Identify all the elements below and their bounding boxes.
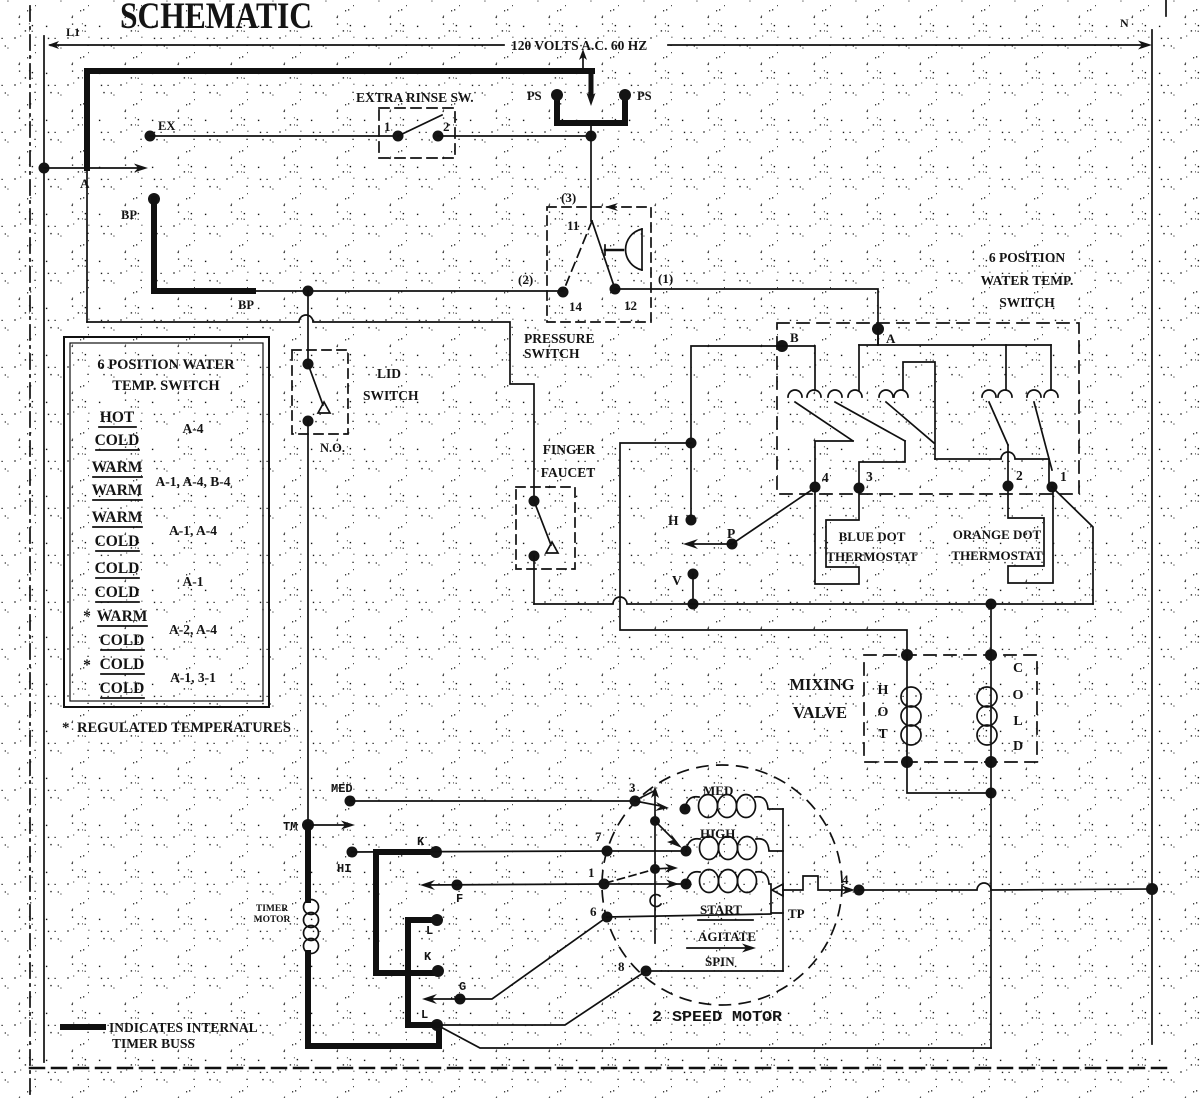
motor dashed circle	[602, 765, 842, 1005]
svg-text:A-2, A-4: A-2, A-4	[169, 622, 217, 637]
timer bus bottom run	[308, 953, 439, 1046]
actuator node b	[650, 864, 660, 874]
node terminal 3	[854, 483, 865, 494]
finger faucet box	[516, 487, 575, 569]
svg-text:D: D	[1013, 739, 1023, 754]
svg-text:PS: PS	[527, 89, 542, 103]
START underline	[698, 919, 753, 921]
temp table row WARM/COLD	[92, 509, 218, 550]
wire 1 to START winding with arrow	[604, 880, 686, 889]
wire 7 to HIGH winding	[607, 850, 686, 852]
water temp B feed	[782, 346, 815, 390]
svg-text:FINGER: FINGER	[543, 442, 596, 457]
temp table title	[97, 357, 235, 394]
svg-text:6 POSITION WATER: 6 POSITION WATER	[97, 357, 235, 373]
svg-text:WARM: WARM	[92, 509, 143, 526]
label LID SWITCH	[363, 366, 419, 403]
COLD solenoid coil	[977, 655, 997, 762]
water temp bar to 1 with hump	[935, 452, 1049, 487]
svg-text:BP: BP	[121, 208, 137, 222]
node V junction	[688, 599, 699, 610]
timer bus thick left vertical	[84, 71, 90, 168]
svg-text:1: 1	[588, 865, 595, 880]
node TP-4	[854, 885, 865, 896]
wire lid switch drop	[307, 291, 309, 364]
wire TP with staple	[783, 876, 850, 890]
svg-text:B: B	[790, 330, 799, 345]
svg-text:THERMOSTAT: THERMOSTAT	[951, 548, 1043, 563]
pressure switch diaphragm horn	[605, 229, 642, 270]
node terminal 4	[810, 482, 821, 493]
wire lid switch to TM	[307, 421, 309, 825]
water temp blade e	[1034, 402, 1052, 470]
node A junction on L1	[39, 163, 50, 174]
svg-text:120 VOLTS A.C. 60 HZ: 120 VOLTS A.C. 60 HZ	[511, 38, 647, 53]
wire terminal 1 to main	[1052, 487, 1093, 604]
svg-text:COLD: COLD	[95, 432, 140, 449]
temp table row HOT/COLD A-4	[95, 409, 204, 449]
node HI terminal	[347, 847, 358, 858]
label COLD vertical	[1013, 661, 1024, 754]
actuator arrow b	[655, 864, 678, 873]
pressure switch blade to 12	[592, 221, 615, 289]
timer motor coil	[304, 900, 319, 954]
temp table row COLD/COLD	[95, 560, 204, 601]
svg-text:P: P	[727, 526, 735, 541]
pressure switch open blade to 14	[563, 221, 592, 292]
water temp bus drops	[859, 345, 1051, 390]
wire bottom return to L	[437, 1025, 991, 1048]
wire 8 to bus (SPIN lead)	[646, 970, 783, 972]
svg-text:3: 3	[629, 780, 636, 795]
label MIXING VALVE	[789, 675, 854, 722]
node EX terminal	[145, 131, 156, 142]
node BP top	[148, 193, 160, 205]
svg-text:C: C	[1013, 661, 1023, 676]
svg-text:*: *	[83, 608, 91, 625]
svg-text:MED: MED	[703, 783, 733, 798]
svg-text:A: A	[80, 176, 90, 191]
lid switch bottom contact	[303, 416, 314, 427]
label FINGER FAUCET	[541, 442, 596, 480]
node terminal 2	[1003, 481, 1014, 492]
svg-text:SCHEMATIC: SCHEMATIC	[120, 0, 312, 37]
svg-text:TEMP. SWITCH: TEMP. SWITCH	[112, 378, 220, 394]
svg-text:2 SPEED MOTOR: 2 SPEED MOTOR	[652, 1010, 782, 1026]
svg-text:EX: EX	[158, 119, 175, 133]
label BLUE DOT THERMOSTAT	[826, 529, 918, 564]
svg-text:8: 8	[618, 959, 625, 974]
svg-text:START: START	[700, 902, 742, 917]
water temp switch box	[777, 323, 1079, 494]
node HOT top	[901, 649, 913, 661]
node A	[872, 323, 884, 335]
node motor 7	[602, 846, 613, 857]
wire P arrow	[683, 539, 732, 549]
label START	[700, 902, 742, 917]
svg-text:O: O	[1013, 688, 1024, 703]
wire A vertical down	[86, 168, 88, 322]
svg-text:A-1, A-4, B-4: A-1, A-4, B-4	[156, 474, 231, 489]
svg-text:AGITATE: AGITATE	[698, 929, 756, 944]
svg-text:(2): (2)	[518, 272, 533, 287]
wire 3 to actuator	[636, 791, 654, 800]
svg-text:TIMER BUSS: TIMER BUSS	[112, 1036, 195, 1051]
page border bottom (dashed)	[30, 1067, 1170, 1070]
svg-text:7: 7	[595, 829, 602, 844]
water temp notch feed	[903, 362, 935, 459]
HOT solenoid coil	[901, 655, 921, 762]
node B	[776, 340, 788, 352]
wire A to finger faucet horizontal with hop	[87, 315, 534, 501]
svg-text:TP: TP	[788, 906, 805, 921]
svg-text:COLD: COLD	[95, 560, 140, 577]
extra rinse blade	[398, 115, 442, 136]
svg-text:THERMOSTAT: THERMOSTAT	[826, 549, 918, 564]
svg-text:HOT: HOT	[100, 409, 135, 426]
wire junction to HOT solenoid	[620, 443, 907, 655]
svg-text:PS: PS	[637, 89, 652, 103]
svg-text:(3): (3)	[561, 190, 576, 205]
blue dot thermostat loop	[815, 492, 859, 584]
node TM	[302, 819, 314, 831]
svg-text:A-4: A-4	[183, 421, 204, 436]
wire main horizontal with hop at 620	[534, 597, 1093, 604]
water temp stationary cups	[788, 390, 1058, 397]
svg-text:*: *	[83, 657, 91, 674]
wire L to 8	[437, 971, 646, 1025]
motor internal bus	[782, 809, 784, 971]
svg-text:COLD: COLD	[100, 656, 145, 673]
node junction H riser	[686, 438, 697, 449]
svg-text:WATER TEMP.: WATER TEMP.	[981, 273, 1074, 288]
node terminal K lower	[432, 965, 444, 977]
svg-text:HIGH: HIGH	[700, 826, 735, 841]
wire BP to pressure switch contact 14	[253, 290, 563, 292]
svg-text:12: 12	[624, 298, 637, 313]
pressure switch contact 14	[558, 287, 569, 298]
wire EX to extra rinse switch	[150, 135, 398, 137]
svg-text:ORANGE DOT: ORANGE DOT	[953, 527, 1042, 542]
svg-text:*: *	[62, 720, 70, 736]
wire P to terminal 4	[732, 489, 813, 544]
pressure switch box top arrow	[605, 203, 618, 211]
legend thick sample	[63, 1024, 103, 1030]
svg-text:(1): (1)	[658, 271, 673, 286]
node COLD top	[985, 649, 997, 661]
label TIMER MOTOR	[254, 904, 291, 925]
svg-text:11: 11	[567, 218, 579, 233]
lid switch box	[292, 350, 348, 434]
label REGULATED TEMPERATURES	[62, 720, 291, 736]
temp table row WARM/WARM	[92, 459, 231, 499]
svg-text:WARM: WARM	[92, 482, 143, 499]
dashed link 1 to actuator	[606, 870, 652, 883]
svg-text:SWITCH: SWITCH	[363, 388, 419, 403]
svg-text:K: K	[417, 835, 425, 849]
svg-text:4: 4	[822, 470, 829, 485]
label HOT vertical	[878, 683, 889, 742]
node motor 8	[641, 966, 652, 977]
orange dot thermostat loop	[1008, 491, 1053, 583]
node PS right	[619, 89, 631, 101]
svg-text:L: L	[426, 924, 433, 938]
node N junction	[1146, 883, 1158, 895]
wire TP to N with hop	[859, 883, 1152, 890]
wire N vertical bus	[1151, 30, 1153, 1044]
svg-text:2: 2	[1016, 468, 1023, 483]
label PRESSURE SWITCH	[524, 331, 595, 361]
node junction lid switch tee	[303, 286, 314, 297]
lid switch blade	[308, 364, 323, 405]
svg-text:COLD: COLD	[100, 632, 145, 649]
svg-text:TM: TM	[283, 820, 297, 834]
svg-text:14: 14	[569, 299, 583, 314]
svg-text:SWITCH: SWITCH	[999, 295, 1055, 310]
PS thick U link	[557, 95, 625, 123]
svg-text:WARM: WARM	[92, 459, 143, 476]
node HOT bottom	[901, 756, 913, 768]
wire pressure switch 12 to water temp A	[615, 289, 878, 345]
node terminal 1	[1047, 482, 1058, 493]
water temp bar to 4	[815, 441, 853, 487]
svg-text:MOTOR: MOTOR	[254, 915, 291, 925]
lid switch top contact	[303, 359, 314, 370]
extra rinse contact 1	[393, 131, 404, 142]
TP arrowhead	[842, 886, 855, 895]
svg-text:A-1, 3-1: A-1, 3-1	[170, 670, 216, 685]
svg-text:EXTRA RINSE SW.: EXTRA RINSE SW.	[356, 90, 474, 105]
label INDICATES INTERNAL TIMER BUSS	[109, 1020, 258, 1051]
node G terminal	[455, 994, 466, 1005]
wire MED to motor 3	[350, 800, 635, 802]
svg-text:3: 3	[866, 469, 873, 484]
finger faucet blade	[534, 501, 551, 545]
arrow up from thick bus to 120V line	[579, 49, 587, 69]
extra rinse switch box	[379, 108, 455, 158]
finger faucet top contact	[529, 496, 540, 507]
node COLD feed junction	[986, 599, 997, 610]
timer bus TM drop	[305, 825, 311, 900]
svg-text:VALVE: VALVE	[793, 703, 847, 722]
svg-text:G: G	[459, 980, 466, 994]
svg-text:PRESSURE: PRESSURE	[524, 331, 595, 346]
timer bus K link	[376, 852, 438, 973]
svg-text:H: H	[668, 513, 679, 528]
water temp blade c	[886, 402, 934, 443]
page border right stub	[1165, 0, 1167, 16]
wire PS junction drop to pressure switch	[590, 126, 592, 221]
svg-text:A-1, A-4: A-1, A-4	[169, 523, 217, 538]
svg-text:A: A	[886, 331, 896, 346]
node motor 6	[602, 912, 613, 923]
wire 6 stub	[607, 914, 771, 917]
water temp bar to 3	[859, 441, 905, 488]
svg-text:MIXING: MIXING	[789, 675, 854, 694]
label 6 POSITION WATER TEMP. SWITCH (right)	[981, 250, 1074, 310]
wire HI to motor 7	[352, 851, 607, 852]
svg-text:FAUCET: FAUCET	[541, 465, 596, 480]
timer bus BP thick L	[154, 199, 253, 291]
svg-text:BLUE DOT: BLUE DOT	[839, 529, 906, 544]
svg-text:1: 1	[384, 119, 391, 134]
svg-text:BP: BP	[238, 298, 254, 312]
water temp A bus	[859, 329, 1051, 345]
timer bus thick top horizontal	[87, 68, 592, 74]
wire 120V line right segment with right arrowhead	[668, 41, 1152, 50]
temp table row *WARM/COLD	[83, 608, 217, 649]
HIGH winding	[681, 837, 784, 860]
water temp drop to 2	[1007, 445, 1009, 486]
water temp blade a	[795, 402, 853, 441]
svg-text:SPIN: SPIN	[705, 954, 735, 969]
page border left (dash-dot)	[29, 6, 31, 1098]
wire B to H	[691, 346, 782, 520]
svg-text:L1: L1	[66, 25, 80, 39]
node F terminal	[452, 880, 463, 891]
lid switch triangle contact	[318, 402, 330, 413]
node motor 1	[599, 879, 610, 890]
svg-text:REGULATED TEMPERATURES: REGULATED TEMPERATURES	[77, 720, 291, 736]
actuator node a	[650, 816, 660, 826]
svg-text:2: 2	[443, 119, 450, 134]
water temp blade d	[989, 402, 1008, 445]
svg-text:SWITCH: SWITCH	[524, 346, 580, 361]
temp table outer box	[64, 337, 269, 707]
svg-text:TIMER: TIMER	[256, 904, 288, 914]
wire A arrow horizontal	[44, 164, 148, 173]
node motor 3	[630, 796, 641, 807]
wire V drop	[692, 574, 694, 604]
node terminal L upper	[431, 914, 443, 926]
svg-text:1: 1	[1060, 469, 1067, 484]
centrifugal actuator line	[650, 786, 661, 943]
TP takeoff triangle	[772, 884, 783, 896]
svg-text:4: 4	[842, 872, 849, 887]
temp table inner box	[70, 343, 263, 701]
AGITATE arrow	[687, 944, 756, 953]
START winding	[681, 870, 784, 914]
svg-text:F: F	[456, 892, 463, 906]
node terminal L lower	[431, 1019, 443, 1031]
wire F to motor 1	[424, 884, 604, 885]
svg-text:6: 6	[590, 904, 597, 919]
node COLD bottom	[985, 756, 997, 768]
svg-text:MED: MED	[331, 782, 353, 796]
wire extra rinse to PS junction	[438, 135, 591, 137]
node terminal K upper	[430, 846, 442, 858]
wire finger faucet to main	[533, 556, 535, 604]
node PS left	[551, 89, 563, 101]
svg-text:A-1: A-1	[183, 574, 204, 589]
wire F arrow	[420, 880, 435, 890]
svg-text:6 POSITION: 6 POSITION	[989, 250, 1065, 265]
pressure switch contact 12	[610, 284, 621, 295]
svg-text:K: K	[424, 950, 432, 964]
wire COLD return down	[990, 762, 992, 1048]
node mixing valve bottom junction	[986, 788, 997, 799]
finger faucet triangle contact	[546, 542, 558, 553]
svg-text:COLD: COLD	[95, 584, 140, 601]
finger faucet bottom contact	[529, 551, 540, 562]
wire L1 vertical bus	[43, 36, 45, 1062]
svg-text:N.O.: N.O.	[320, 441, 345, 455]
temp table row *COLD/COLD	[83, 656, 216, 697]
extra rinse contact 2	[433, 131, 444, 142]
svg-text:WARM: WARM	[97, 608, 148, 625]
wire TM arrow	[308, 821, 355, 830]
wire 3 to MED arrow	[635, 801, 669, 811]
node terminal P	[727, 539, 738, 550]
svg-text:COLD: COLD	[100, 680, 145, 697]
wire HOT bottom link	[907, 762, 991, 793]
svg-text:HI: HI	[337, 862, 351, 876]
svg-text:O: O	[878, 705, 889, 720]
wire 120V line left segment with left arrowhead	[48, 41, 504, 49]
timer bus L upper link	[408, 920, 437, 1025]
svg-text:INDICATES INTERNAL: INDICATES INTERNAL	[109, 1020, 258, 1035]
arrow down from thick bus	[587, 74, 596, 106]
mixing valve box	[864, 655, 1037, 762]
node terminal H	[686, 515, 697, 526]
node MED terminal	[345, 796, 356, 807]
wire COLD feed	[990, 604, 992, 655]
svg-text:V: V	[672, 573, 682, 588]
svg-text:COLD: COLD	[95, 533, 140, 550]
label ORANGE DOT THERMOSTAT	[951, 527, 1043, 563]
node terminal V	[688, 569, 699, 580]
svg-text:L: L	[421, 1008, 428, 1022]
pressure switch box	[547, 207, 651, 322]
svg-text:N: N	[1120, 16, 1129, 30]
MED winding	[680, 795, 784, 818]
svg-text:H: H	[878, 683, 889, 698]
wire G to motor 6	[426, 917, 607, 999]
svg-text:L: L	[1013, 714, 1022, 729]
wire G arrow	[422, 994, 437, 1004]
svg-text:T: T	[878, 727, 888, 742]
svg-text:LID: LID	[377, 366, 401, 381]
node junction below PS	[586, 131, 597, 142]
actuator arrow to HIGH	[655, 821, 682, 848]
water temp blade b	[835, 402, 905, 441]
